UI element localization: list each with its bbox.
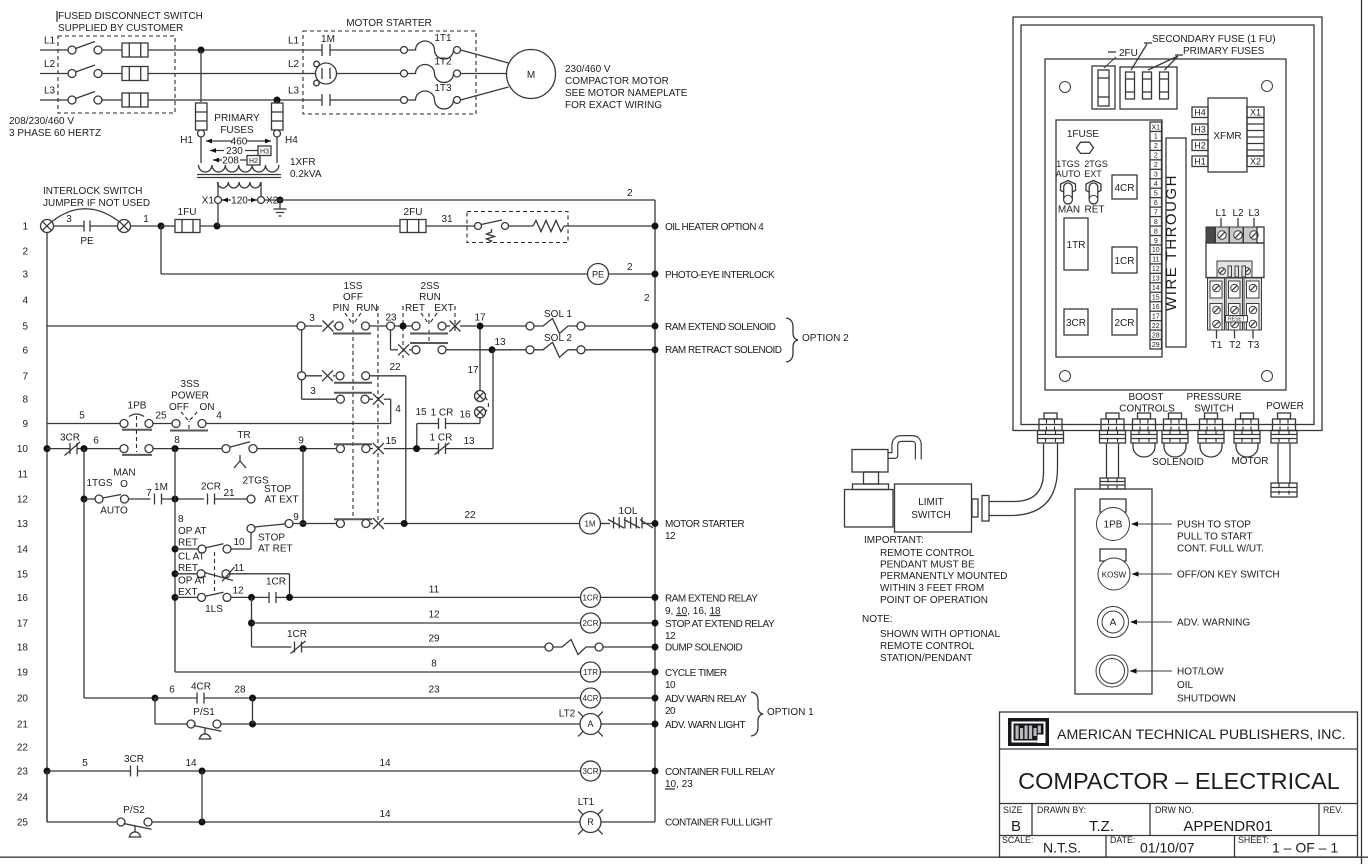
svg-text:3: 3 bbox=[1154, 172, 1158, 179]
svg-text:P/S2: P/S2 bbox=[123, 805, 145, 816]
svg-text:2: 2 bbox=[1154, 153, 1158, 160]
svg-text:1: 1 bbox=[1154, 134, 1158, 141]
svg-text:1M: 1M bbox=[321, 34, 335, 45]
svg-text:7: 7 bbox=[146, 488, 152, 499]
svg-text:1PB: 1PB bbox=[1104, 520, 1123, 531]
svg-text:FUSED DISCONNECT SWITCH: FUSED DISCONNECT SWITCH bbox=[58, 11, 203, 22]
svg-text:12: 12 bbox=[17, 495, 29, 506]
svg-text:1FUSE: 1FUSE bbox=[1067, 129, 1100, 140]
svg-text:17: 17 bbox=[467, 365, 479, 376]
svg-text:28: 28 bbox=[234, 685, 246, 696]
svg-text:25: 25 bbox=[155, 411, 167, 422]
disconnect switch blade bbox=[68, 46, 76, 54]
ground symbol bbox=[277, 197, 284, 204]
svg-text:2: 2 bbox=[644, 293, 650, 304]
line terminal 1222 bbox=[1216, 227, 1230, 243]
svg-text:T1: T1 bbox=[1211, 340, 1223, 351]
svg-text:PIN: PIN bbox=[333, 303, 350, 314]
starter coil contact L2 bbox=[303, 73, 316, 75]
svg-text:RAM EXTEND SOLENOID: RAM EXTEND SOLENOID bbox=[665, 322, 776, 333]
1SS contact pole rung13 bbox=[336, 520, 344, 528]
svg-text:2CR: 2CR bbox=[582, 619, 598, 628]
svg-text:3CR: 3CR bbox=[124, 754, 144, 765]
svg-text:9: 9 bbox=[1154, 238, 1158, 245]
svg-text:5: 5 bbox=[1154, 190, 1158, 197]
limit switch cable to enclosure bbox=[989, 443, 1044, 502]
svg-text:TR: TR bbox=[237, 430, 250, 441]
svg-text:N.T.S.: N.T.S. bbox=[1043, 840, 1081, 856]
svg-text:SOL 1: SOL 1 bbox=[544, 309, 572, 320]
svg-text:2FU: 2FU bbox=[1119, 48, 1138, 59]
wire 13 riser to rung 6 bbox=[492, 350, 494, 449]
compactor motor M bbox=[461, 50, 509, 63]
jumper arc bbox=[52, 209, 119, 222]
svg-text:REV.: REV. bbox=[1323, 805, 1343, 815]
branch column x251 bbox=[251, 597, 253, 647]
line terminal 1238 bbox=[1230, 227, 1244, 243]
svg-text:MAN: MAN bbox=[1058, 205, 1080, 216]
svg-text:31: 31 bbox=[441, 214, 453, 225]
svg-text:24: 24 bbox=[17, 793, 29, 804]
svg-text:11: 11 bbox=[234, 563, 245, 574]
svg-text:L3: L3 bbox=[1248, 208, 1260, 219]
svg-text:2CR: 2CR bbox=[1114, 318, 1134, 329]
svg-text:SCALE:: SCALE: bbox=[1002, 835, 1033, 845]
svg-text:3: 3 bbox=[310, 386, 316, 397]
svg-text:LIMIT: LIMIT bbox=[918, 497, 944, 508]
svg-text:SIZE: SIZE bbox=[1003, 805, 1023, 815]
svg-text:230/460 V: 230/460 V bbox=[565, 64, 611, 75]
svg-text:1CR: 1CR bbox=[287, 629, 307, 640]
svg-text:1M: 1M bbox=[584, 519, 595, 528]
svg-text:8: 8 bbox=[1154, 228, 1158, 235]
svg-text:4CR: 4CR bbox=[191, 682, 211, 693]
wire to test lamps bbox=[479, 418, 481, 424]
svg-text:1TR: 1TR bbox=[583, 668, 598, 677]
svg-text:12: 12 bbox=[428, 610, 440, 621]
contact 3CR rung23 bbox=[44, 768, 51, 775]
svg-text:10: 10 bbox=[17, 444, 29, 455]
svg-text:8: 8 bbox=[1154, 219, 1158, 226]
2SS contact pole rung6 bbox=[412, 346, 420, 354]
svg-text:H2: H2 bbox=[249, 158, 258, 165]
wire rung 19 cycle timer bbox=[175, 671, 581, 673]
terminal X1 panel bbox=[1247, 107, 1264, 118]
svg-text:2: 2 bbox=[1154, 143, 1158, 150]
pendant leaders bbox=[1137, 523, 1172, 525]
disconnect switch blade bbox=[68, 70, 76, 78]
svg-text:1CR: 1CR bbox=[582, 593, 598, 602]
svg-text:1 CR: 1 CR bbox=[431, 408, 454, 419]
mounting holes bbox=[1060, 82, 1071, 93]
svg-text:17: 17 bbox=[17, 619, 29, 630]
svg-text:L3: L3 bbox=[288, 86, 300, 97]
svg-text:RET: RET bbox=[1085, 205, 1105, 216]
svg-text:2SS: 2SS bbox=[421, 281, 440, 292]
svg-text:OFF: OFF bbox=[169, 402, 189, 413]
svg-text:PRIMARY FUSES: PRIMARY FUSES bbox=[1183, 46, 1265, 57]
svg-text:1TR: 1TR bbox=[1067, 240, 1086, 251]
svg-text:14: 14 bbox=[17, 545, 29, 556]
svg-text:208/230/460 V: 208/230/460 V bbox=[9, 116, 74, 127]
svg-text:OIL HEATER OPTION 4: OIL HEATER OPTION 4 bbox=[665, 222, 764, 233]
svg-text:3 PHASE 60 HERTZ: 3 PHASE 60 HERTZ bbox=[9, 128, 101, 139]
pushbutton 1PB pole 2 bbox=[120, 445, 128, 453]
svg-text:SWITCH: SWITCH bbox=[1194, 404, 1233, 415]
pendant conduit bbox=[1106, 443, 1108, 478]
svg-text:REMOTE CONTROL: REMOTE CONTROL bbox=[880, 548, 975, 559]
svg-text:SECONDARY FUSE (1 FU): SECONDARY FUSE (1 FU) bbox=[1152, 34, 1276, 45]
svg-text:22: 22 bbox=[389, 362, 401, 373]
svg-text:PULL TO START: PULL TO START bbox=[1177, 532, 1253, 543]
svg-text:6: 6 bbox=[22, 345, 28, 356]
svg-text:4CR: 4CR bbox=[1114, 183, 1134, 194]
svg-text:X1: X1 bbox=[202, 196, 215, 207]
svg-text:5: 5 bbox=[22, 322, 28, 333]
wire rung 8 bbox=[302, 398, 336, 400]
toggle switch RET bbox=[1086, 181, 1101, 195]
svg-text:1XFR: 1XFR bbox=[290, 157, 316, 168]
hot/low oil lamp bbox=[1096, 655, 1128, 687]
svg-text:H1: H1 bbox=[180, 135, 193, 146]
svg-text:2: 2 bbox=[627, 188, 633, 199]
svg-text:15: 15 bbox=[1152, 295, 1160, 302]
svg-text:EXT: EXT bbox=[434, 303, 453, 314]
selector 3SS bbox=[172, 420, 180, 428]
svg-text:29: 29 bbox=[428, 634, 440, 645]
svg-text:L1: L1 bbox=[288, 36, 300, 47]
svg-text:CONT. FULL W/UT.: CONT. FULL W/UT. bbox=[1177, 544, 1264, 555]
svg-text:1 – OF – 1: 1 – OF – 1 bbox=[1272, 840, 1338, 856]
svg-text:L2: L2 bbox=[1232, 208, 1244, 219]
wire 17 vertical bbox=[479, 329, 481, 390]
terminal strip bbox=[1150, 122, 1162, 349]
contact 1M L3 bbox=[303, 99, 322, 101]
svg-text:RET: RET bbox=[178, 538, 198, 549]
svg-text:3: 3 bbox=[22, 270, 28, 281]
svg-text:1CR: 1CR bbox=[266, 577, 286, 588]
svg-text:1T1: 1T1 bbox=[434, 33, 452, 44]
svg-text:6: 6 bbox=[169, 685, 175, 696]
svg-text:SHUTDOWN: SHUTDOWN bbox=[1177, 694, 1236, 705]
fuse block primary/secondary bbox=[1120, 67, 1177, 109]
svg-text:1SS: 1SS bbox=[344, 281, 363, 292]
node wire 17 bbox=[477, 323, 484, 330]
indicator lamp lower bbox=[475, 407, 486, 418]
left rail bbox=[46, 233, 48, 823]
svg-text:18: 18 bbox=[17, 643, 29, 654]
wire 4 drop to rung 9 bbox=[390, 399, 392, 423]
svg-text:23: 23 bbox=[428, 685, 440, 696]
svg-text:8: 8 bbox=[22, 395, 28, 406]
svg-text:SHOWN WITH OPTIONAL: SHOWN WITH OPTIONAL bbox=[880, 629, 1000, 640]
fused disconnect switch dashed enclosure bbox=[58, 36, 175, 113]
limit switch arm box bbox=[845, 490, 894, 528]
svg-text:8: 8 bbox=[174, 435, 180, 446]
node rung1 right bbox=[652, 223, 659, 230]
svg-text:AT RET: AT RET bbox=[258, 544, 293, 555]
coil 2CR bbox=[581, 613, 601, 633]
svg-text:H2: H2 bbox=[1194, 141, 1206, 151]
svg-text:1T2: 1T2 bbox=[434, 57, 452, 68]
svg-text:14: 14 bbox=[379, 758, 391, 769]
wire rung 6 ram retract bbox=[390, 330, 392, 350]
svg-text:10: 10 bbox=[233, 537, 245, 548]
terminal H1 bbox=[1192, 156, 1208, 167]
terminal H3 bbox=[1192, 124, 1208, 135]
pushbutton 1PB operator bbox=[1100, 499, 1126, 512]
svg-text:H1: H1 bbox=[1194, 157, 1206, 167]
panel plate bbox=[1045, 59, 1286, 390]
svg-text:2: 2 bbox=[22, 247, 28, 258]
svg-text:2FU: 2FU bbox=[404, 207, 423, 218]
svg-text:RAM EXTEND RELAY: RAM EXTEND RELAY bbox=[665, 594, 758, 605]
conduit connector 1284 bbox=[1278, 413, 1291, 419]
svg-text:OP AT: OP AT bbox=[178, 576, 207, 587]
brace option 1 bbox=[751, 692, 763, 736]
thermostat switch bbox=[426, 225, 475, 227]
svg-text:OIL: OIL bbox=[1177, 680, 1194, 691]
svg-text:17: 17 bbox=[1152, 313, 1160, 320]
conduit connector 1247 bbox=[1241, 413, 1254, 419]
relay 3CR bbox=[1064, 309, 1088, 335]
svg-text:RESET: RESET bbox=[1228, 317, 1245, 323]
svg-text:CL AT: CL AT bbox=[178, 552, 205, 563]
svg-text:22: 22 bbox=[464, 510, 476, 521]
svg-text:OP AT: OP AT bbox=[178, 526, 207, 537]
svg-text:1LS: 1LS bbox=[205, 604, 223, 615]
power conduit drop bbox=[1277, 443, 1279, 483]
svg-text:17: 17 bbox=[474, 313, 486, 324]
key switch KOSW bbox=[1100, 549, 1126, 561]
adv warning lamp A bbox=[1098, 607, 1129, 638]
svg-text:8: 8 bbox=[431, 659, 437, 670]
pressure switch P/S1 bbox=[154, 698, 156, 724]
pendant station box bbox=[1075, 489, 1152, 694]
junction L3 to primary fuse bbox=[274, 97, 281, 104]
svg-text:T2: T2 bbox=[1229, 340, 1241, 351]
svg-text:14: 14 bbox=[185, 758, 197, 769]
svg-text:SWITCH: SWITCH bbox=[911, 510, 950, 521]
svg-text:X1: X1 bbox=[1152, 124, 1161, 131]
conduit connector 1050.5 bbox=[1044, 413, 1057, 419]
svg-text:PERMANENTLY MOUNTED: PERMANENTLY MOUNTED bbox=[880, 571, 1007, 582]
svg-text:PHOTO-EYE INTERLOCK: PHOTO-EYE INTERLOCK bbox=[665, 270, 775, 281]
ATP logo bbox=[1008, 718, 1049, 746]
svg-text:X2: X2 bbox=[1250, 157, 1261, 167]
wire through duct bbox=[1166, 138, 1186, 347]
svg-text:A: A bbox=[1110, 618, 1117, 629]
svg-text:WIRE THROUGH: WIRE THROUGH bbox=[1163, 174, 1180, 311]
enclosure inner box bbox=[1021, 25, 1314, 425]
svg-text:29: 29 bbox=[1152, 342, 1160, 349]
relay component box bbox=[1056, 120, 1162, 357]
rung 13 main wire bbox=[293, 523, 336, 525]
wire rung 17 bbox=[252, 622, 581, 624]
svg-text:L1: L1 bbox=[1215, 208, 1227, 219]
svg-text:0.2kVA: 0.2kVA bbox=[290, 169, 322, 180]
svg-text:12: 12 bbox=[232, 586, 244, 597]
svg-text:DRAWN BY:: DRAWN BY: bbox=[1037, 805, 1086, 815]
svg-text:FOR EXACT WIRING: FOR EXACT WIRING bbox=[565, 100, 662, 111]
svg-text:CONTAINER FULL RELAY: CONTAINER FULL RELAY bbox=[665, 767, 776, 778]
svg-text:CYCLE TIMER: CYCLE TIMER bbox=[665, 668, 727, 679]
svg-text:AUTO: AUTO bbox=[1056, 169, 1081, 179]
svg-text:OFF: OFF bbox=[343, 292, 363, 303]
page border right bbox=[1361, 0, 1363, 864]
selector 2SS linkage dashes bbox=[428, 313, 430, 325]
pole 1253 bbox=[1244, 278, 1262, 330]
svg-text:2: 2 bbox=[627, 262, 633, 273]
wire rung 10 bbox=[44, 445, 51, 452]
oil heater thermostat dashed box bbox=[467, 212, 568, 243]
photo-eye PE device bbox=[588, 264, 609, 285]
svg-text:14: 14 bbox=[379, 809, 391, 820]
limit switch hook bbox=[888, 439, 918, 460]
svg-text:ADV. WARNING: ADV. WARNING bbox=[1177, 618, 1250, 629]
wire rung 5 ram extend bbox=[47, 325, 297, 327]
svg-text:ADV WARN RELAY: ADV WARN RELAY bbox=[665, 694, 747, 705]
svg-text:120: 120 bbox=[231, 196, 248, 207]
1SS contact pole rung5 bbox=[305, 325, 322, 327]
svg-text:11: 11 bbox=[18, 470, 29, 481]
svg-text:14: 14 bbox=[1152, 285, 1160, 292]
svg-text:2CR: 2CR bbox=[201, 482, 221, 493]
wire rung 18 dump bbox=[252, 646, 292, 648]
wire rung 9 bbox=[47, 423, 120, 425]
svg-text:3SS: 3SS bbox=[181, 379, 200, 390]
svg-text:JUMPER IF NOT USED: JUMPER IF NOT USED bbox=[43, 198, 150, 209]
svg-text:EXT: EXT bbox=[178, 587, 197, 598]
svg-text:IMPORTANT:: IMPORTANT: bbox=[864, 535, 924, 546]
svg-text:22: 22 bbox=[17, 743, 29, 754]
contact 4CR rung20 bbox=[152, 695, 159, 702]
svg-text:RET: RET bbox=[178, 563, 198, 574]
timer 1TR bbox=[1064, 218, 1088, 270]
svg-text:1TGS: 1TGS bbox=[86, 478, 112, 489]
terminal stack between X1 X2 bbox=[1247, 118, 1264, 157]
svg-text:M: M bbox=[527, 70, 535, 81]
svg-text:REMOTE CONTROL: REMOTE CONTROL bbox=[880, 641, 975, 652]
transformer 1XFR primary winding bbox=[199, 165, 279, 172]
pressure switch P/S2 bbox=[46, 771, 48, 822]
svg-text:H3: H3 bbox=[1194, 125, 1206, 135]
svg-text:KOSW: KOSW bbox=[1102, 571, 1127, 580]
svg-text:01/10/07: 01/10/07 bbox=[1140, 840, 1195, 856]
transformer XFMR bbox=[1208, 98, 1247, 172]
svg-text:SOLENOID: SOLENOID bbox=[1152, 457, 1204, 468]
svg-text:1 CR: 1 CR bbox=[430, 433, 453, 444]
coil 1M motor starter bbox=[580, 513, 601, 534]
svg-text:RUN: RUN bbox=[356, 303, 378, 314]
svg-text:15: 15 bbox=[17, 569, 29, 580]
svg-text:FUSES: FUSES bbox=[220, 125, 254, 136]
1SS contact pole rung8 bbox=[336, 395, 344, 403]
svg-text:PUSH TO STOP: PUSH TO STOP bbox=[1177, 520, 1251, 531]
svg-text:AMERICAN TECHNICAL PUBLISHERS,: AMERICAN TECHNICAL PUBLISHERS, INC. bbox=[1057, 727, 1346, 743]
svg-text:PE: PE bbox=[80, 236, 94, 247]
svg-text:HOT/LOW: HOT/LOW bbox=[1177, 667, 1224, 678]
svg-text:AUTO: AUTO bbox=[100, 506, 128, 517]
svg-text:4: 4 bbox=[1154, 181, 1158, 188]
wire 2 from X2 to right rail bbox=[265, 199, 656, 201]
svg-text:3CR: 3CR bbox=[1066, 318, 1086, 329]
svg-text:9: 9 bbox=[22, 419, 28, 430]
contactor body bbox=[1206, 243, 1264, 278]
svg-text:16: 16 bbox=[17, 593, 29, 604]
junction L1 to primary fuse bbox=[198, 47, 205, 54]
svg-text:STOP: STOP bbox=[264, 484, 291, 495]
svg-text:L1: L1 bbox=[44, 36, 56, 47]
overload heater 1T2 bbox=[401, 70, 408, 77]
svg-text:STOP AT EXTEND RELAY: STOP AT EXTEND RELAY bbox=[665, 619, 775, 630]
svg-text:22: 22 bbox=[1152, 323, 1160, 330]
reset bar bbox=[1226, 316, 1248, 323]
svg-text:H3: H3 bbox=[260, 149, 269, 156]
svg-text:1OL: 1OL bbox=[619, 506, 638, 517]
wire 120V secondary bbox=[222, 199, 258, 201]
svg-text:208: 208 bbox=[222, 156, 239, 167]
svg-text:1PB: 1PB bbox=[128, 401, 147, 412]
svg-text:T3: T3 bbox=[1248, 340, 1260, 351]
svg-text:MAN: MAN bbox=[113, 468, 135, 479]
coil 1TR bbox=[581, 662, 601, 682]
interlock connector right bbox=[118, 220, 131, 233]
disconnect switch blade bbox=[68, 96, 76, 104]
svg-text:CONTROLS: CONTROLS bbox=[1119, 404, 1175, 415]
svg-text:H4: H4 bbox=[285, 135, 298, 146]
svg-text:NOTE:: NOTE: bbox=[862, 614, 893, 625]
node wire 13 bbox=[489, 346, 496, 353]
svg-text:4: 4 bbox=[216, 411, 222, 422]
dump solenoid bbox=[545, 643, 553, 651]
overload heater 1T1 bbox=[401, 47, 408, 54]
svg-text:A: A bbox=[587, 719, 593, 729]
svg-text:6: 6 bbox=[1154, 200, 1158, 207]
svg-text:13: 13 bbox=[17, 519, 29, 530]
svg-text:PE: PE bbox=[592, 270, 604, 280]
svg-text:DATE:: DATE: bbox=[1110, 835, 1135, 845]
svg-text:INTERLOCK SWITCH: INTERLOCK SWITCH bbox=[43, 186, 142, 197]
terminal X2 bbox=[258, 197, 265, 204]
svg-text:MOTOR STARTER: MOTOR STARTER bbox=[665, 519, 744, 530]
svg-text:STATION/PENDANT: STATION/PENDANT bbox=[880, 653, 972, 664]
svg-text:APPENDR01: APPENDR01 bbox=[1183, 818, 1272, 835]
line fuse bbox=[102, 99, 122, 101]
svg-text:5: 5 bbox=[82, 758, 88, 769]
2SS contact pole rung5 bbox=[412, 322, 420, 330]
relay 1CR bbox=[1112, 247, 1137, 273]
svg-text:4: 4 bbox=[395, 404, 401, 415]
svg-text:COMPACTOR MOTOR: COMPACTOR MOTOR bbox=[565, 76, 669, 87]
junction X1 drop bbox=[214, 223, 221, 230]
svg-text:B: B bbox=[1011, 818, 1021, 835]
svg-text:23: 23 bbox=[17, 767, 29, 778]
svg-text:ADV. WARN LIGHT: ADV. WARN LIGHT bbox=[665, 720, 745, 731]
relay 4CR bbox=[1112, 175, 1137, 199]
svg-text:PENDANT MUST BE: PENDANT MUST BE bbox=[880, 560, 975, 571]
terminal H2 bbox=[1192, 140, 1208, 151]
svg-text:OPTION 2: OPTION 2 bbox=[802, 333, 849, 344]
svg-text:STOP: STOP bbox=[258, 533, 285, 544]
wire 22 drop to rung 13 bbox=[405, 376, 407, 524]
svg-text:3: 3 bbox=[66, 214, 72, 225]
svg-text:13: 13 bbox=[1152, 276, 1160, 283]
svg-text:15: 15 bbox=[385, 436, 397, 447]
selector 1SS linkage dashes bbox=[352, 313, 354, 325]
svg-text:1: 1 bbox=[22, 222, 28, 233]
svg-text:DUMP SOLENOID: DUMP SOLENOID bbox=[665, 643, 742, 654]
